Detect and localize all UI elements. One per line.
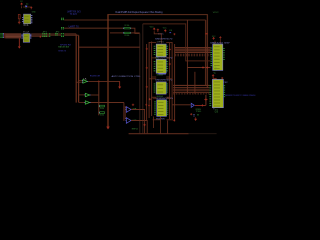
- junction mid rail 6: [145, 104, 147, 106]
- wire ribbon to U10 dashed row: [173, 93, 209, 95]
- ic U1 left pins: [22, 16, 23, 19]
- wire opamp U4B output: [131, 121, 147, 134]
- svg-text:R2 10k: R2 10k: [125, 25, 130, 27]
- ground symbol below ribbon: [18, 38, 20, 46]
- svg-text:SN65HVD72: SN65HVD72: [155, 80, 174, 82]
- ground symbol GND3: [119, 81, 121, 86]
- wire bus A: [107, 14, 207, 16]
- bus entry pads low: [61, 32, 62, 35]
- ic U10: [212, 79, 223, 107]
- wire U11 output: [195, 104, 206, 106]
- svg-text:RS485 DIR: RS485 DIR: [90, 76, 100, 78]
- svg-text:GND: GND: [32, 12, 36, 14]
- svg-text:TX 3V3: TX 3V3: [70, 14, 77, 16]
- svg-text:TXD: TXD: [196, 111, 202, 113]
- wire bottom bus: [129, 133, 189, 135]
- gate U3A: [83, 80, 87, 84]
- wire U8 bottom drop 1: [153, 117, 155, 129]
- junction below R1: [18, 21, 21, 24]
- ic U5: [156, 44, 166, 57]
- comparator U11: [191, 103, 194, 107]
- wire gate rail G1: [75, 34, 77, 102]
- jumper pads JP1: [42, 32, 43, 35]
- junction bottom left: [190, 113, 192, 115]
- ic U8 left pins: [154, 100, 156, 103]
- ic U1: [24, 14, 31, 24]
- wire rail RO: [98, 81, 100, 115]
- svg-text:R3 10k: R3 10k: [125, 35, 130, 37]
- ic U2 right pins: [30, 33, 31, 36]
- resistor R5: [100, 112, 105, 114]
- wire R2 to corner: [131, 28, 140, 33]
- capacitor C1: [26, 5, 27, 7]
- wire vertical rail VB: [206, 15, 208, 88]
- gate U3C: [85, 101, 89, 104]
- wire left rail L3: [151, 42, 153, 117]
- ic U7 left pins: [154, 83, 156, 86]
- wire gate rail G2: [78, 35, 80, 102]
- resistor R4: [100, 105, 105, 107]
- ground symbol GND2: [195, 117, 197, 120]
- gate U3C input wire: [79, 101, 86, 103]
- supply symbol VCC arrow: [21, 3, 23, 6]
- wire left rail L1: [146, 44, 148, 121]
- junction left rail 2: [146, 67, 148, 69]
- ic U2: [23, 34, 30, 43]
- supply VCC arrow U5: [153, 28, 155, 31]
- junction ribbon left 2: [169, 63, 171, 65]
- wire cross horizontal: [79, 46, 140, 48]
- resistor R1: [18, 14, 20, 18]
- wire opamp U4A output: [131, 110, 144, 134]
- wire bus D: [110, 32, 124, 34]
- capacitor C2: [30, 6, 32, 9]
- wire ribbon to rails: [64, 33, 76, 35]
- wire ribbon J1 to U2 backing: [5, 33, 21, 38]
- wire bus Cp: [143, 24, 211, 61]
- comparator U4B: [126, 118, 131, 124]
- wire U8 bottom drop 2: [160, 117, 162, 134]
- ic U10 right pins: [224, 84, 226, 87]
- junction between U9 U10: [212, 74, 214, 76]
- resistor R2: [124, 28, 130, 29]
- svg-text:VCC: VCC: [213, 12, 219, 14]
- junction opamp top: [132, 104, 134, 106]
- comparator U4A: [126, 107, 131, 113]
- junction mid rail 7: [173, 119, 175, 121]
- wire ribbon to U10: [173, 84, 209, 86]
- junction U4 outputs: [143, 124, 145, 126]
- ic U10 left pins: [209, 84, 211, 87]
- junction VA VB bridge: [205, 33, 208, 34]
- svg-text:VCC: VCC: [150, 26, 155, 28]
- junction mid rail 5: [149, 98, 151, 100]
- svg-text:10k: 10k: [100, 115, 104, 117]
- junction gate U3A output: [98, 80, 100, 82]
- wire junction to U10: [213, 75, 216, 79]
- junction U11: [201, 104, 203, 106]
- ic U10 bottom pin: [212, 107, 215, 110]
- wire left rail L2: [148, 42, 150, 118]
- ic U7 right pins: [166, 83, 168, 86]
- wire U8 riser right: [167, 121, 169, 134]
- jumper pads JP3: [55, 32, 56, 35]
- wire right rail R3r: [174, 44, 176, 122]
- wire R1 down: [18, 19, 20, 24]
- wire vertical VR: [205, 95, 207, 105]
- junction VM 2: [206, 66, 208, 68]
- wire vertical VO: [107, 15, 109, 127]
- bus entry pads top: [61, 17, 62, 20]
- ic U5 left pins: [154, 45, 156, 48]
- jumper pads JP2: [49, 32, 50, 35]
- wire R3 right: [131, 32, 140, 34]
- junction tick right of U2: [40, 36, 41, 38]
- ic U7: [156, 82, 166, 94]
- svg-text:MAX485 A/B: MAX485 A/B: [58, 46, 69, 49]
- junction left rail 3: [146, 86, 148, 88]
- ic U9: [213, 44, 223, 70]
- wire faint vertical F2: [142, 24, 144, 134]
- ic U9 left pins: [211, 47, 213, 50]
- resistor R3: [124, 32, 130, 33]
- wire C1 to IC1: [23, 6, 26, 8]
- wire bottom bus faint: [189, 133, 217, 135]
- wire loop jumpers U5: [149, 42, 156, 44]
- wire opamp rail: [123, 103, 125, 122]
- svg-text:VCC: VCC: [163, 28, 167, 30]
- wire ribbon to U9: [175, 47, 211, 49]
- gate U3A input wires: [79, 79, 83, 81]
- wire ribbon U2 right: [32, 33, 62, 35]
- svg-text:REF12: REF12: [132, 129, 139, 131]
- supply VCC arrow U5 right: [164, 30, 166, 33]
- junction left rail 1: [146, 48, 148, 50]
- ic U9 right pins: [223, 47, 225, 50]
- ic U2 left pins: [21, 33, 22, 36]
- ground symbol GND1: [107, 126, 109, 129]
- ic U8 right pins: [167, 100, 169, 103]
- supply VCC arrow right: [213, 37, 215, 40]
- ic U6 left pins: [154, 60, 156, 63]
- capacitor C4: [219, 36, 221, 39]
- connector J1 pins: [2, 32, 5, 35]
- wire vertical VM: [186, 20, 188, 94]
- comparator U4A input pins: [126, 106, 127, 109]
- wire VCC into U9: [214, 41, 216, 44]
- wire opamp rail 2: [124, 106, 126, 119]
- capacitor C6: [169, 31, 171, 34]
- ic U6: [156, 59, 166, 73]
- connector J1 pads: [0, 32, 1, 35]
- wire vertical rail VA: [205, 20, 207, 86]
- ic U5 right pins: [166, 45, 168, 48]
- wire bus B: [64, 19, 205, 21]
- svg-text:Dual RS485 Full Duplex Repeate: Dual RS485 Full Duplex Repeater / Bus Sh…: [116, 11, 164, 14]
- diode D1: [194, 113, 195, 116]
- ic U8: [157, 100, 167, 117]
- junction VM 1: [202, 66, 204, 68]
- junction ribbon left 1: [169, 48, 171, 50]
- wire VCC to C1: [21, 6, 23, 8]
- wire gate U3C output: [91, 102, 124, 104]
- wire U8 to U11: [172, 104, 191, 106]
- wire ribbon J1 to U2: [5, 33, 21, 35]
- svg-text:SP485 TX: SP485 TX: [58, 51, 66, 53]
- svg-text:10k: 10k: [100, 108, 104, 110]
- gate U3B input wire: [79, 94, 86, 96]
- svg-text:OPT1: OPT1: [157, 41, 165, 43]
- capacitor C5: [221, 77, 223, 79]
- wire loop jumpers U6: [152, 76, 157, 78]
- svg-text:SN65HVD72: SN65HVD72: [155, 39, 174, 41]
- svg-text:DB9 RS232 TO HOST PC / DEBUG C: DB9 RS232 TO HOST PC / DEBUG CONSOLE: [225, 95, 256, 97]
- wire loop U8: [153, 97, 157, 99]
- wire gate U3B output: [91, 94, 99, 96]
- svg-text:GND A B: GND A B: [156, 95, 163, 98]
- capacitor C3: [157, 29, 159, 32]
- wire ribbon to U9 dashed rows: [175, 53, 211, 55]
- wire faint vertical F1: [139, 33, 141, 133]
- ic U1 right pins: [31, 14, 32, 17]
- wire VCC into U5: [154, 31, 161, 43]
- ic U6 right pins: [166, 60, 168, 63]
- svg-text:V-: V-: [214, 72, 217, 74]
- junction left rail 4: [148, 104, 150, 106]
- wire gate U3A output: [88, 80, 120, 82]
- wire bus C: [64, 27, 124, 29]
- gate U3B: [85, 93, 89, 96]
- bus entry pads mid: [61, 26, 62, 29]
- wire right rail R1r: [169, 43, 171, 119]
- wire loop jumpers U7: [149, 78, 156, 80]
- wire right rail R2r: [171, 42, 173, 121]
- wire vertical VN: [194, 72, 196, 94]
- junction VR: [204, 98, 207, 101]
- svg-text:AUTO DIRECTION CTRL: AUTO DIRECTION CTRL: [112, 75, 142, 78]
- ic U6 bottom pins: [158, 73, 166, 76]
